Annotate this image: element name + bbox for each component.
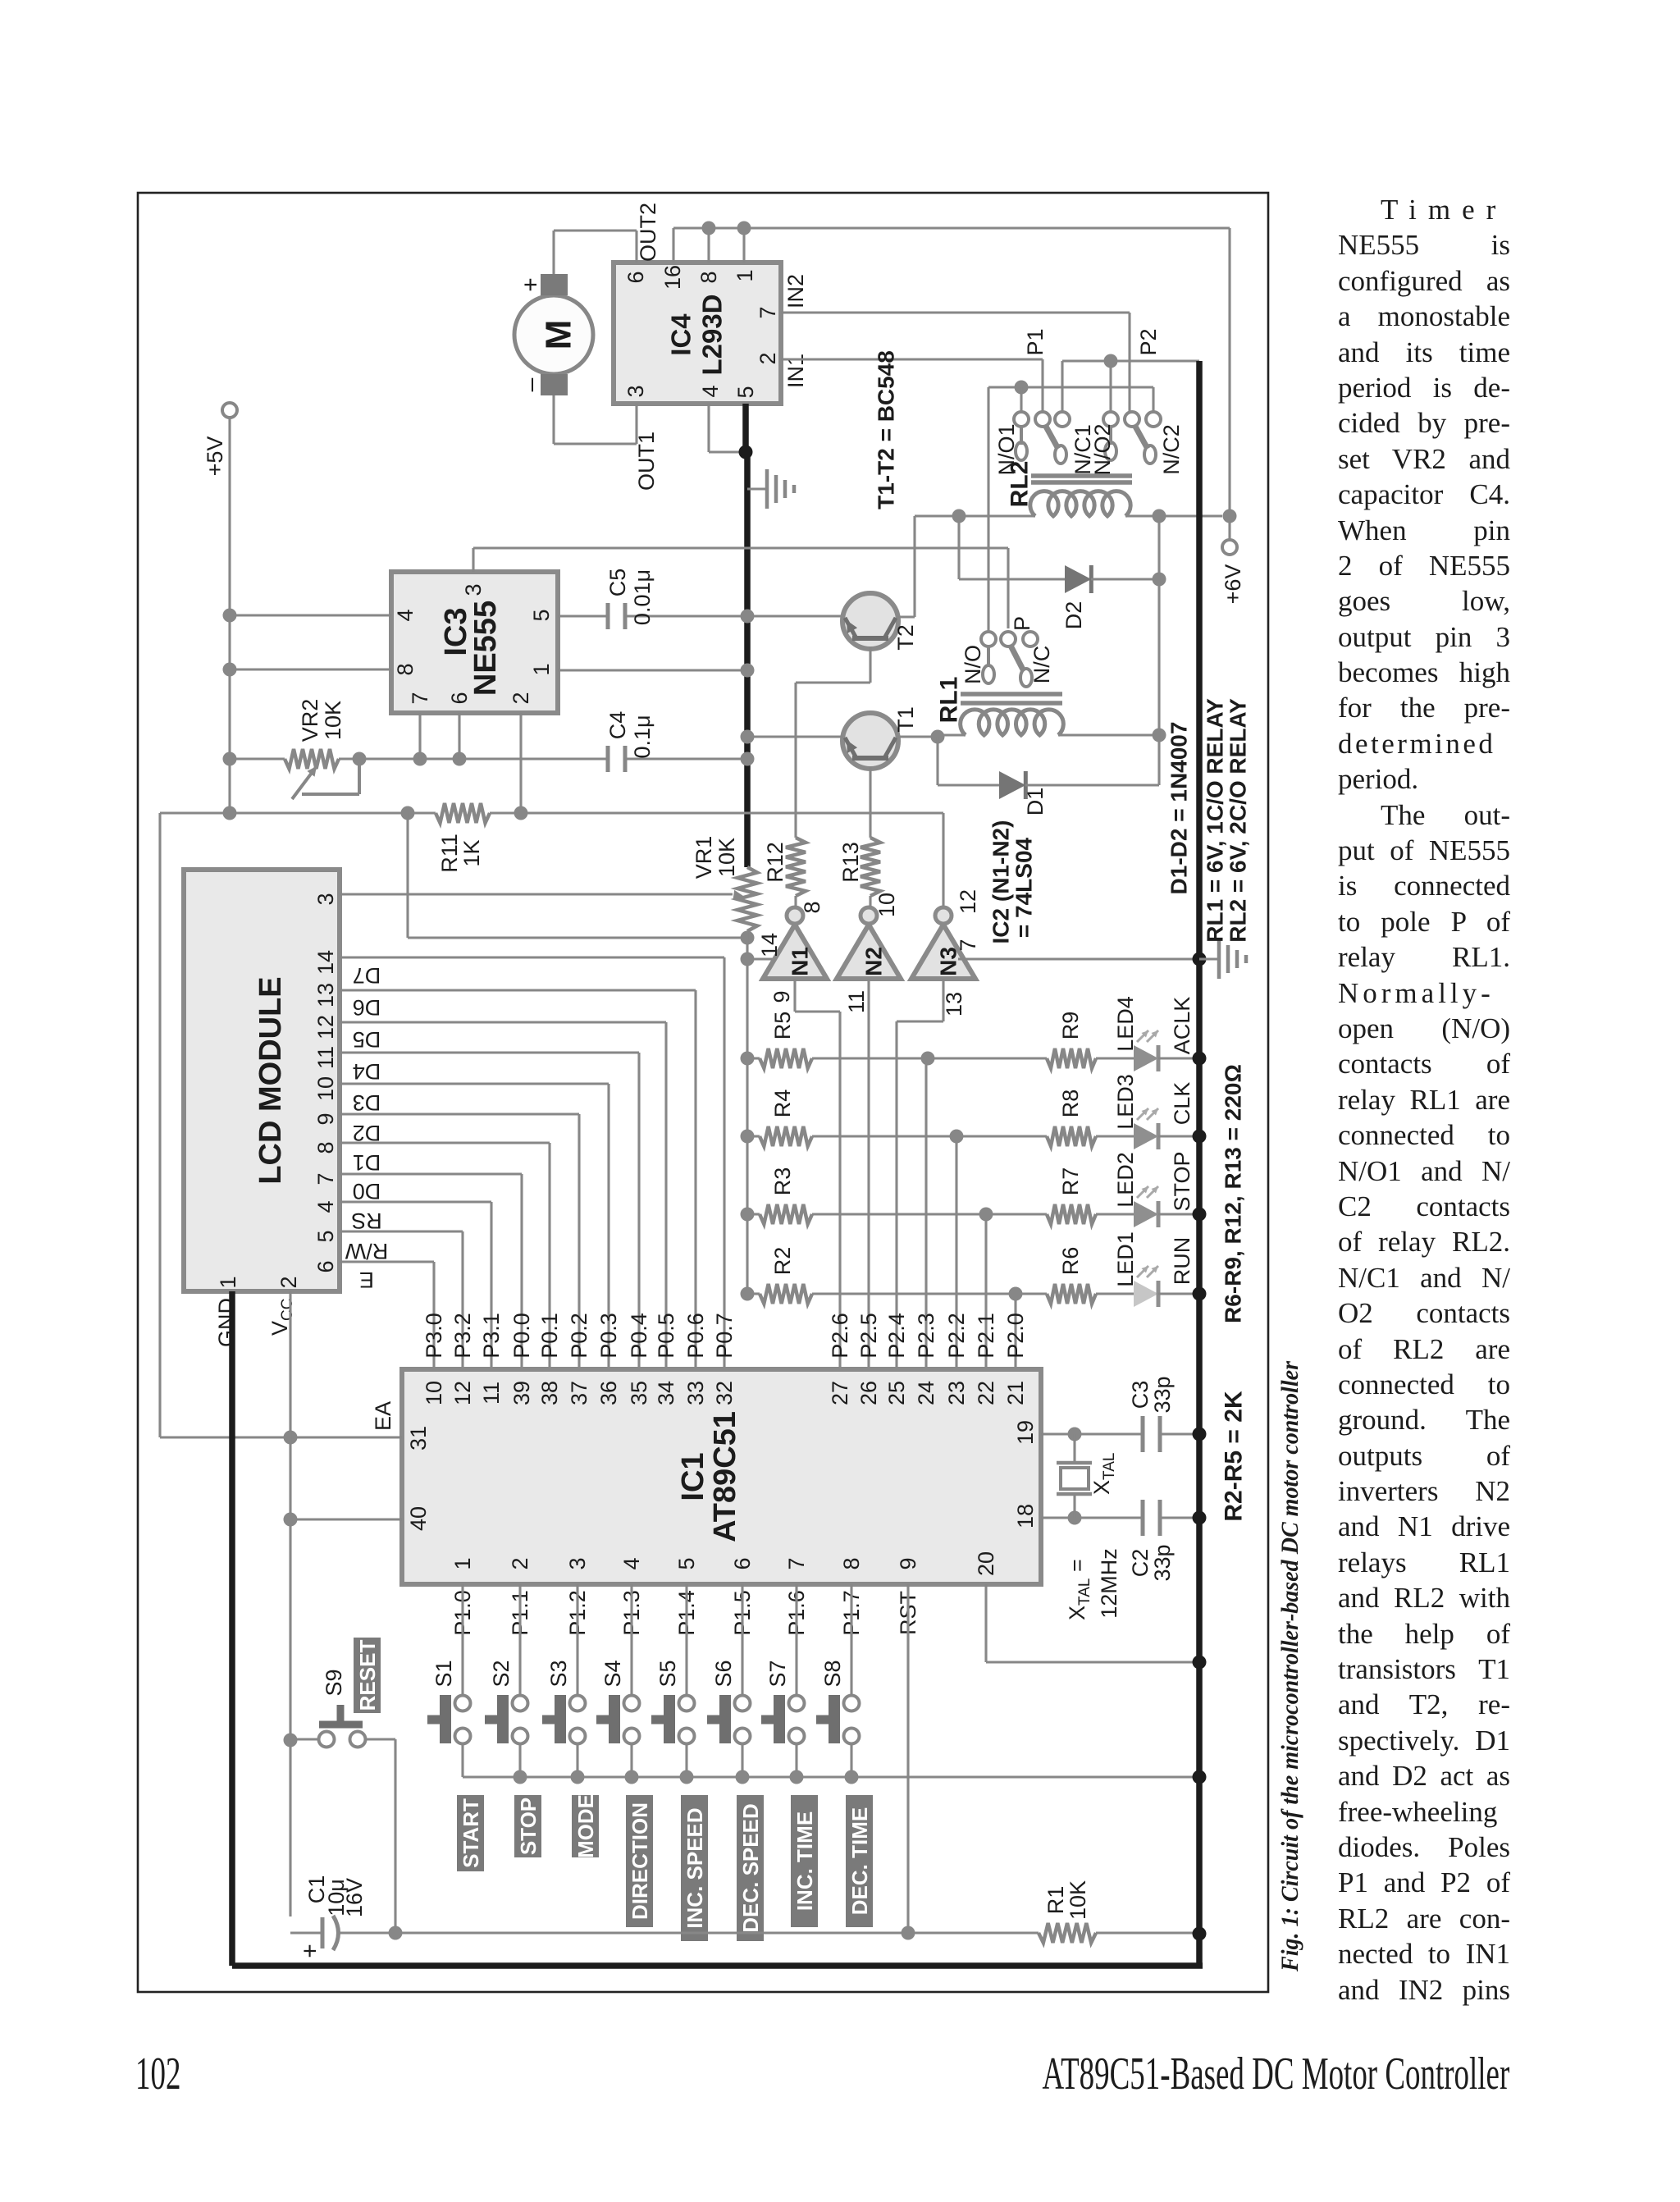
svg-text:AT89C51: AT89C51 xyxy=(708,1411,742,1542)
svg-text:5: 5 xyxy=(733,386,758,398)
svg-text:ACLK: ACLK xyxy=(1170,997,1194,1055)
svg-text:IC4: IC4 xyxy=(666,313,696,356)
svg-text:P0.1: P0.1 xyxy=(537,1313,562,1359)
svg-text:P0.6: P0.6 xyxy=(683,1313,708,1359)
svg-text:R4: R4 xyxy=(770,1090,795,1118)
svg-text:1: 1 xyxy=(733,269,757,281)
svg-text:0.1μ: 0.1μ xyxy=(630,715,655,758)
svg-text:13: 13 xyxy=(942,992,966,1016)
svg-text:L293D: L293D xyxy=(697,294,728,375)
svg-text:C5: C5 xyxy=(605,569,630,597)
svg-text:N1: N1 xyxy=(787,947,813,976)
svg-text:VR2: VR2 xyxy=(298,699,322,742)
svg-text:D0: D0 xyxy=(353,1179,381,1204)
svg-text:R12: R12 xyxy=(763,842,787,883)
svg-text:R9: R9 xyxy=(1058,1012,1083,1040)
svg-text:N/O2: N/O2 xyxy=(1090,423,1115,475)
svg-text:25: 25 xyxy=(884,1381,909,1405)
svg-text:21: 21 xyxy=(1003,1381,1028,1405)
svg-text:5: 5 xyxy=(674,1557,699,1569)
svg-text:P3.1: P3.1 xyxy=(479,1313,504,1359)
svg-text:N/O: N/O xyxy=(961,645,985,684)
svg-text:T1-T2 = BC548: T1-T2 = BC548 xyxy=(874,350,899,509)
svg-text:R8: R8 xyxy=(1058,1090,1083,1118)
svg-text:D4: D4 xyxy=(353,1059,381,1084)
svg-text:NE555: NE555 xyxy=(468,601,503,696)
svg-text:5: 5 xyxy=(313,1230,338,1242)
svg-text:26: 26 xyxy=(856,1381,881,1405)
svg-text:D1: D1 xyxy=(353,1150,381,1175)
svg-text:P2.4: P2.4 xyxy=(884,1313,909,1359)
svg-text:1: 1 xyxy=(216,1276,240,1288)
svg-text:D1: D1 xyxy=(1023,788,1048,816)
svg-text:LCD MODULE: LCD MODULE xyxy=(253,976,288,1184)
svg-text:3: 3 xyxy=(313,893,338,905)
svg-text:10: 10 xyxy=(874,893,899,917)
svg-text:24: 24 xyxy=(914,1381,938,1405)
svg-text:N/C: N/C xyxy=(1029,646,1054,684)
svg-text:C3: C3 xyxy=(1128,1381,1153,1409)
svg-text:14: 14 xyxy=(757,933,782,957)
svg-text:2: 2 xyxy=(509,692,533,704)
svg-text:16: 16 xyxy=(660,265,685,290)
svg-text:4: 4 xyxy=(393,609,418,621)
svg-text:D3: D3 xyxy=(353,1090,381,1115)
svg-text:33p: 33p xyxy=(1150,1544,1175,1581)
svg-text:EA: EA xyxy=(371,1401,395,1431)
svg-text:RESET: RESET xyxy=(355,1640,380,1711)
svg-text:RL1: RL1 xyxy=(936,677,963,724)
svg-text:27: 27 xyxy=(828,1381,852,1405)
svg-text:8: 8 xyxy=(393,663,418,675)
svg-text:+5V: +5V xyxy=(203,436,227,477)
svg-text:IN2: IN2 xyxy=(783,274,808,308)
svg-text:40: 40 xyxy=(406,1506,431,1531)
svg-text:6: 6 xyxy=(623,271,648,283)
svg-text:R5: R5 xyxy=(770,1012,795,1040)
svg-text:DEC. TIME: DEC. TIME xyxy=(847,1807,872,1915)
svg-text:8: 8 xyxy=(800,901,824,913)
svg-text:35: 35 xyxy=(627,1381,651,1405)
svg-text:VR1: VR1 xyxy=(692,836,716,879)
svg-text:P0.3: P0.3 xyxy=(596,1313,621,1359)
svg-text:T2: T2 xyxy=(893,624,918,651)
svg-text:2: 2 xyxy=(508,1557,532,1569)
svg-text:9: 9 xyxy=(769,990,794,1003)
svg-text:12: 12 xyxy=(450,1381,475,1405)
svg-text:11: 11 xyxy=(844,990,869,1013)
svg-text:LED4: LED4 xyxy=(1113,996,1138,1052)
svg-text:S9: S9 xyxy=(322,1669,346,1696)
svg-text:11: 11 xyxy=(313,1046,338,1069)
svg-text:LED1: LED1 xyxy=(1113,1231,1138,1287)
svg-text:LED2: LED2 xyxy=(1113,1152,1138,1208)
svg-text:3: 3 xyxy=(461,583,486,596)
svg-text:R/W: R/W xyxy=(345,1239,388,1263)
svg-text:D7: D7 xyxy=(353,963,381,988)
svg-text:S2: S2 xyxy=(489,1660,514,1687)
svg-text:3: 3 xyxy=(623,385,648,397)
svg-text:7: 7 xyxy=(956,939,980,951)
svg-text:12MHz: 12MHz xyxy=(1097,1548,1121,1619)
svg-text:–: – xyxy=(518,377,545,391)
svg-text:S8: S8 xyxy=(820,1660,845,1687)
svg-text:6: 6 xyxy=(447,692,472,704)
svg-text:INC. TIME: INC. TIME xyxy=(792,1811,817,1911)
svg-text:D6: D6 xyxy=(353,995,381,1020)
svg-text:7: 7 xyxy=(784,1557,809,1569)
svg-text:CLK: CLK xyxy=(1170,1082,1194,1126)
svg-text:P2.3: P2.3 xyxy=(914,1313,938,1359)
svg-text:10K: 10K xyxy=(1066,1880,1090,1920)
svg-text:22: 22 xyxy=(974,1381,998,1405)
svg-text:D2: D2 xyxy=(1061,601,1086,630)
svg-text:INC. SPEED: INC. SPEED xyxy=(682,1807,707,1928)
svg-text:36: 36 xyxy=(596,1381,621,1405)
svg-text:DIRECTION: DIRECTION xyxy=(628,1802,652,1920)
svg-text:P0.5: P0.5 xyxy=(654,1313,678,1359)
svg-text:S4: S4 xyxy=(600,1660,625,1687)
svg-text:R1: R1 xyxy=(1043,1886,1068,1915)
svg-text:S3: S3 xyxy=(546,1660,571,1687)
svg-text:R11: R11 xyxy=(437,834,462,873)
svg-text:C4: C4 xyxy=(605,711,630,740)
svg-text:RL1 = 6V, 1C/O RELAY: RL1 = 6V, 1C/O RELAY xyxy=(1203,698,1228,943)
svg-text:12: 12 xyxy=(956,889,980,914)
svg-text:Fig. 1: Circuit of the microco: Fig. 1: Circuit of the microcontroller-b… xyxy=(1276,1361,1303,1972)
svg-text:18: 18 xyxy=(1013,1504,1038,1528)
svg-text:R3: R3 xyxy=(770,1167,795,1196)
svg-text:11: 11 xyxy=(479,1382,504,1405)
svg-text:R13: R13 xyxy=(838,842,863,883)
svg-text:START: START xyxy=(459,1798,483,1868)
svg-text:S5: S5 xyxy=(655,1660,680,1687)
svg-text:M: M xyxy=(539,320,579,350)
svg-text:10K: 10K xyxy=(321,701,345,740)
svg-text:6: 6 xyxy=(730,1557,755,1569)
svg-text:+: + xyxy=(297,1944,324,1958)
svg-text:N2: N2 xyxy=(861,947,887,976)
svg-text:RL2 = 6V, 2C/O RELAY: RL2 = 6V, 2C/O RELAY xyxy=(1226,698,1251,943)
svg-text:D1-D2 = 1N4007: D1-D2 = 1N4007 xyxy=(1166,722,1192,895)
svg-text:1K: 1K xyxy=(459,839,484,866)
svg-text:14: 14 xyxy=(313,950,338,975)
svg-text:P2.1: P2.1 xyxy=(974,1313,998,1359)
svg-text:T1: T1 xyxy=(893,706,918,733)
svg-text:STOP: STOP xyxy=(516,1798,541,1855)
svg-text:8: 8 xyxy=(839,1557,864,1569)
svg-text:7: 7 xyxy=(313,1172,338,1185)
svg-text:20: 20 xyxy=(974,1551,998,1576)
svg-text:12: 12 xyxy=(313,1015,338,1039)
svg-text:8: 8 xyxy=(696,271,721,283)
svg-text:MODE: MODE xyxy=(573,1794,598,1858)
svg-text:+6V: +6V xyxy=(1221,564,1245,605)
svg-text:R2-R5 = 2K: R2-R5 = 2K xyxy=(1221,1391,1248,1522)
svg-text:P0.2: P0.2 xyxy=(567,1313,591,1359)
svg-text:2: 2 xyxy=(756,352,780,364)
svg-text:10: 10 xyxy=(422,1381,446,1405)
svg-text:D5: D5 xyxy=(353,1027,381,1052)
svg-text:S1: S1 xyxy=(431,1660,456,1687)
svg-text:P2.2: P2.2 xyxy=(944,1313,969,1359)
svg-text:10K: 10K xyxy=(714,838,739,877)
svg-text:OUT1: OUT1 xyxy=(634,432,659,491)
svg-text:4: 4 xyxy=(313,1200,338,1213)
svg-text:33p: 33p xyxy=(1150,1376,1175,1413)
svg-text:P3.0: P3.0 xyxy=(422,1313,446,1359)
svg-text:IC2 (N1-N2): IC2 (N1-N2) xyxy=(988,820,1014,944)
svg-text:3: 3 xyxy=(565,1557,590,1569)
svg-text:39: 39 xyxy=(509,1381,534,1405)
svg-text:+: + xyxy=(518,277,545,292)
svg-text:P0.7: P0.7 xyxy=(712,1313,737,1359)
svg-text:0.01μ: 0.01μ xyxy=(630,569,655,625)
svg-text:34: 34 xyxy=(654,1381,678,1405)
svg-text:N/C2: N/C2 xyxy=(1159,424,1184,475)
svg-text:P0.4: P0.4 xyxy=(627,1313,651,1359)
svg-text:2: 2 xyxy=(276,1276,301,1288)
svg-text:8: 8 xyxy=(313,1141,338,1154)
svg-text:P3.2: P3.2 xyxy=(450,1313,475,1359)
svg-text:13: 13 xyxy=(313,983,338,1007)
svg-text:LED3: LED3 xyxy=(1113,1074,1138,1130)
svg-text:37: 37 xyxy=(567,1381,591,1405)
svg-text:N/O1: N/O1 xyxy=(994,423,1019,475)
svg-text:7: 7 xyxy=(408,692,432,704)
svg-text:P: P xyxy=(1010,616,1034,631)
svg-text:5: 5 xyxy=(529,609,554,621)
svg-text:23: 23 xyxy=(944,1381,969,1405)
svg-text:R7: R7 xyxy=(1058,1167,1083,1196)
svg-text:S7: S7 xyxy=(765,1660,790,1687)
svg-text:32: 32 xyxy=(712,1381,737,1405)
svg-text:P0.0: P0.0 xyxy=(509,1313,534,1359)
svg-text:P2: P2 xyxy=(1136,328,1161,355)
svg-text:33: 33 xyxy=(683,1381,708,1405)
svg-text:P2.5: P2.5 xyxy=(856,1313,881,1359)
svg-text:P2.6: P2.6 xyxy=(828,1313,852,1359)
svg-text:E: E xyxy=(359,1268,374,1292)
svg-text:DEC. SPEED: DEC. SPEED xyxy=(738,1803,763,1933)
svg-text:C2: C2 xyxy=(1128,1549,1153,1578)
svg-text:P1: P1 xyxy=(1023,328,1048,355)
svg-text:= 74LS04: = 74LS04 xyxy=(1011,837,1037,938)
svg-text:1: 1 xyxy=(450,1557,475,1569)
svg-text:RS: RS xyxy=(351,1208,382,1233)
svg-text:9: 9 xyxy=(313,1112,338,1125)
svg-text:R6-R9, R12, R13 = 220Ω: R6-R9, R12, R13 = 220Ω xyxy=(1221,1064,1246,1323)
svg-text:1: 1 xyxy=(529,663,554,675)
svg-text:7: 7 xyxy=(756,306,780,318)
svg-text:9: 9 xyxy=(896,1557,920,1569)
svg-text:4: 4 xyxy=(619,1557,644,1569)
svg-text:STOP: STOP xyxy=(1170,1151,1194,1211)
svg-text:R2: R2 xyxy=(770,1247,795,1276)
svg-text:16V: 16V xyxy=(342,1878,367,1917)
svg-text:31: 31 xyxy=(406,1426,431,1450)
svg-text:IC1: IC1 xyxy=(676,1452,710,1501)
svg-text:19: 19 xyxy=(1013,1420,1038,1445)
svg-text:S6: S6 xyxy=(711,1660,736,1687)
svg-text:38: 38 xyxy=(537,1381,562,1405)
svg-text:P2.0: P2.0 xyxy=(1003,1313,1028,1359)
svg-text:4: 4 xyxy=(698,385,723,397)
svg-text:6: 6 xyxy=(313,1260,338,1272)
svg-text:OUT2: OUT2 xyxy=(636,203,660,262)
svg-text:10: 10 xyxy=(313,1076,338,1101)
svg-text:RUN: RUN xyxy=(1170,1237,1194,1286)
svg-text:R6: R6 xyxy=(1058,1247,1083,1276)
